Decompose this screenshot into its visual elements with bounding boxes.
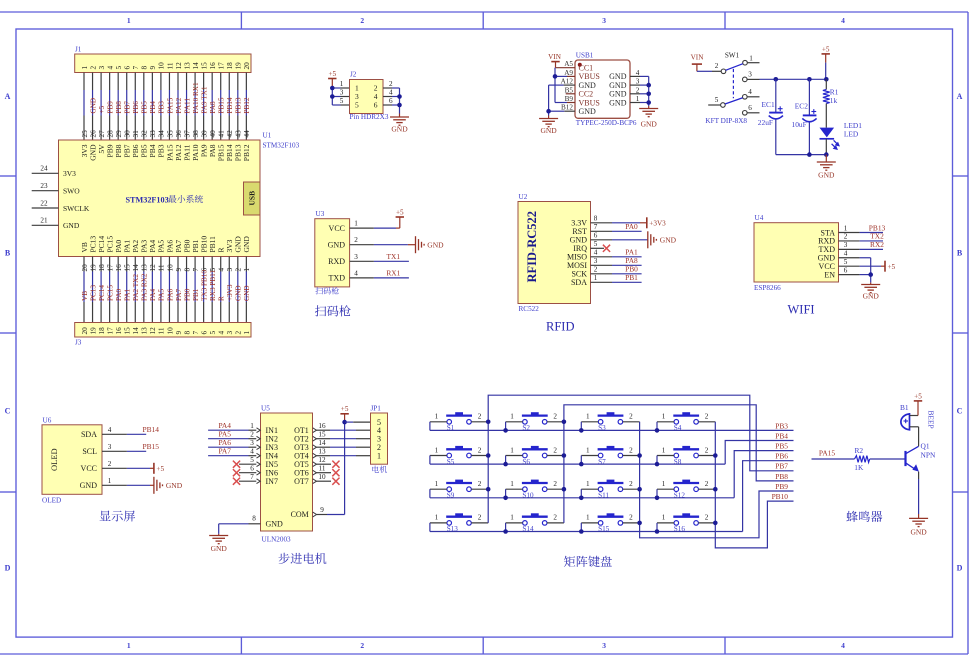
- pushbutton S3: [581, 412, 639, 432]
- wire VBUS bus A9-B9: [554, 68, 556, 103]
- svg-text:B: B: [957, 249, 963, 258]
- svg-text:GND: GND: [540, 126, 557, 135]
- svg-text:7: 7: [594, 223, 598, 231]
- svg-text:PA7: PA7: [175, 288, 183, 301]
- pushbutton S13: [430, 513, 488, 533]
- svg-text:R: R: [218, 296, 226, 301]
- svg-text:PB14: PB14: [142, 425, 159, 434]
- svg-text:10: 10: [166, 264, 174, 272]
- svg-text:LED: LED: [844, 130, 859, 139]
- svg-text:9: 9: [149, 66, 157, 70]
- svg-text:35: 35: [166, 130, 174, 138]
- svg-text:7: 7: [192, 331, 200, 335]
- svg-text:PB3: PB3: [158, 101, 166, 114]
- ground symbol below U5: [218, 534, 220, 536]
- wire U2 MOSI net PA8: [591, 264, 613, 266]
- power +5 port at J2: [328, 78, 336, 80]
- svg-text:PA9 TX1: PA9 TX1: [200, 86, 208, 113]
- svg-text:1: 1: [586, 446, 590, 454]
- svg-text:8: 8: [594, 215, 598, 223]
- junction dot VBUS bus: [553, 74, 558, 79]
- pushbutton S2: [506, 412, 564, 432]
- svg-text:11: 11: [158, 264, 166, 271]
- svg-text:J3: J3: [75, 339, 82, 347]
- svg-text:PB3: PB3: [775, 421, 788, 430]
- svg-text:2: 2: [478, 413, 482, 421]
- wire U3 VCC to +5: [350, 227, 374, 229]
- RFID module U2 RC522: [518, 202, 591, 304]
- power +5 port top right: [822, 53, 830, 55]
- svg-text:2: 2: [636, 86, 640, 94]
- svg-text:2: 2: [235, 268, 243, 272]
- caption buzzer: [846, 511, 857, 522]
- svg-text:PB7: PB7: [124, 101, 132, 114]
- svg-text:PA7: PA7: [219, 446, 232, 455]
- svg-text:3: 3: [748, 71, 752, 79]
- wire +5 bus to J2 left pins: [331, 88, 333, 105]
- svg-text:GND: GND: [391, 125, 408, 134]
- svg-text:GND: GND: [818, 171, 835, 180]
- wire bottom rail of filter caps: [776, 154, 827, 156]
- svg-text:2: 2: [235, 331, 243, 335]
- svg-text:PB13: PB13: [235, 97, 243, 113]
- svg-text:PB6: PB6: [132, 101, 140, 114]
- wires U5 outputs OT1-OT4 to JP1: [317, 429, 331, 431]
- svg-text:13: 13: [183, 62, 191, 70]
- svg-text:A: A: [5, 92, 11, 101]
- svg-text:A12: A12: [561, 78, 574, 86]
- svg-text:RXD: RXD: [328, 257, 345, 266]
- svg-text:25: 25: [81, 130, 89, 138]
- svg-text:4: 4: [354, 269, 358, 277]
- svg-text:1: 1: [354, 220, 358, 228]
- svg-text:10: 10: [158, 62, 166, 70]
- svg-text:GND: GND: [63, 221, 80, 230]
- junction dots on J2 right bus: [397, 94, 402, 99]
- svg-text:B5: B5: [565, 86, 574, 94]
- svg-text:+5: +5: [328, 70, 336, 78]
- svg-text:A5: A5: [564, 60, 573, 68]
- svg-text:44: 44: [243, 130, 251, 138]
- ground symbol below J2: [399, 114, 401, 118]
- svg-text:2: 2: [705, 413, 709, 421]
- svg-text:RC522: RC522: [519, 305, 540, 313]
- svg-text:GND: GND: [235, 285, 243, 301]
- svg-text:KFT DIP-8X8: KFT DIP-8X8: [705, 117, 747, 125]
- pushbutton S1: [430, 412, 488, 432]
- svg-text:NPN: NPN: [921, 450, 936, 459]
- U1 USB sub-connector box: [244, 182, 261, 215]
- SW1 pin stubs: [747, 62, 759, 64]
- svg-text:TXD: TXD: [329, 274, 346, 283]
- svg-text:6: 6: [200, 331, 208, 335]
- svg-text:USB1: USB1: [576, 52, 594, 60]
- svg-text:5: 5: [355, 101, 359, 110]
- wire U4 TXD net RX2: [839, 248, 860, 250]
- pushbutton S16: [657, 513, 715, 533]
- svg-text:21: 21: [40, 217, 48, 225]
- wire U3 GND to ground: [350, 244, 374, 246]
- svg-text:VIN: VIN: [548, 53, 562, 61]
- pin stub CC2 B5: [566, 93, 575, 95]
- svg-text:PB12: PB12: [242, 144, 251, 161]
- svg-text:PA15: PA15: [819, 449, 835, 458]
- svg-text:PB1: PB1: [625, 273, 638, 282]
- svg-text:5: 5: [594, 240, 598, 248]
- svg-text:20: 20: [81, 327, 89, 335]
- svg-text:6: 6: [250, 464, 254, 472]
- svg-text:5: 5: [250, 456, 254, 464]
- pushbutton S10: [506, 480, 564, 500]
- svg-text:U6: U6: [43, 416, 52, 424]
- wire U6 SDA net PB14: [102, 433, 127, 435]
- junction dots on +5 rail: [774, 77, 779, 82]
- LED1: [820, 128, 835, 138]
- svg-text:PB6: PB6: [775, 452, 788, 461]
- wire U2 GND to ground: [591, 239, 613, 241]
- svg-text:3: 3: [594, 257, 598, 265]
- svg-text:PB15: PB15: [218, 97, 226, 113]
- svg-text:RFID: RFID: [546, 320, 574, 334]
- svg-text:16: 16: [115, 264, 123, 272]
- pushbutton S7: [581, 446, 639, 466]
- svg-text:6: 6: [389, 97, 393, 105]
- svg-text:RX3 PB11: RX3 PB11: [209, 270, 217, 301]
- wire U1 bottom pins down to J3: [84, 257, 246, 323]
- caption barcode scanner: [315, 305, 326, 316]
- wire USB1 GND pins A12 B12 to ground: [564, 84, 575, 86]
- svg-text:15: 15: [200, 62, 208, 70]
- svg-text:GND: GND: [863, 292, 880, 301]
- U3 comment text scanner: [315, 287, 322, 294]
- wire JP1 pin5 to +5 rail: [345, 421, 354, 423]
- svg-text:1: 1: [108, 477, 112, 485]
- capacitor EC2 10uF: [808, 79, 810, 115]
- connector J2 Pin HDR2X3: [350, 80, 384, 114]
- power +5 port above JP1: [344, 414, 346, 422]
- svg-text:20: 20: [81, 264, 89, 272]
- svg-text:1: 1: [586, 480, 590, 488]
- svg-text:VBUS: VBUS: [579, 98, 600, 107]
- svg-text:OT7: OT7: [294, 477, 309, 486]
- svg-text:9: 9: [320, 506, 324, 514]
- svg-text:+5: +5: [341, 405, 349, 413]
- svg-text:1: 1: [243, 268, 251, 272]
- svg-text:17: 17: [106, 264, 114, 272]
- pushbutton S9: [430, 480, 488, 500]
- svg-text:PB8: PB8: [115, 101, 123, 114]
- ground symbol below Q1: [918, 514, 920, 518]
- svg-text:23: 23: [40, 182, 48, 190]
- svg-text:34: 34: [158, 130, 166, 138]
- svg-text:1: 1: [340, 80, 344, 88]
- svg-text:16: 16: [318, 422, 326, 430]
- svg-text:BEEP: BEEP: [927, 411, 936, 429]
- svg-text:IN7: IN7: [266, 477, 278, 486]
- SW1 actuator levers: [726, 64, 743, 71]
- svg-text:1: 1: [510, 413, 514, 421]
- svg-text:EC1: EC1: [762, 100, 775, 109]
- wire keypad column 3 net to PB9: [640, 422, 794, 538]
- pushbutton S12: [657, 480, 715, 500]
- svg-text:PA5: PA5: [158, 288, 166, 301]
- svg-text:6: 6: [594, 232, 598, 240]
- svg-text:22: 22: [40, 199, 48, 207]
- svg-text:3: 3: [602, 16, 606, 25]
- svg-text:13: 13: [318, 447, 326, 455]
- wire row3 rail riser to PB5 stub: [734, 451, 793, 498]
- svg-text:37: 37: [183, 130, 191, 138]
- svg-text:STM32F103: STM32F103: [126, 195, 169, 204]
- svg-text:1: 1: [662, 514, 666, 522]
- svg-text:GND: GND: [609, 72, 627, 81]
- svg-text:B12: B12: [561, 104, 573, 112]
- caption display: [100, 511, 111, 521]
- svg-text:PA0: PA0: [625, 222, 638, 231]
- transistor Q1 NPN: [904, 451, 906, 466]
- power +3V3 port at U2: [640, 222, 647, 224]
- svg-text:2: 2: [360, 16, 364, 25]
- svg-text:PA15: PA15: [166, 97, 174, 113]
- svg-text:J1: J1: [75, 46, 82, 54]
- svg-text:10uF: 10uF: [792, 120, 807, 129]
- svg-text:4: 4: [250, 447, 254, 455]
- wire USB1 right shield pins to ground: [630, 75, 640, 77]
- svg-text:PC14: PC14: [98, 285, 106, 301]
- power +5 port above buzzer: [917, 401, 919, 416]
- svg-text:J2: J2: [350, 71, 357, 79]
- wire U4 STA net PB13: [839, 232, 860, 234]
- power +5 port at U4: [881, 265, 885, 267]
- svg-text:4: 4: [844, 250, 848, 258]
- svg-text:14: 14: [132, 264, 140, 272]
- svg-text:2: 2: [715, 62, 719, 70]
- svg-text:9: 9: [175, 268, 183, 272]
- junction dots bottom rail: [807, 152, 812, 157]
- svg-text:31: 31: [132, 130, 140, 138]
- svg-text:U3: U3: [316, 210, 325, 218]
- wire keypad row rails pin1 nets: [430, 422, 794, 532]
- svg-text:5: 5: [844, 258, 848, 266]
- svg-text:PB15: PB15: [142, 442, 159, 451]
- svg-text:4: 4: [389, 89, 393, 97]
- ground symbol right of U3: [416, 236, 425, 253]
- svg-text:PA0: PA0: [115, 288, 123, 301]
- svg-text:22uF: 22uF: [758, 118, 773, 127]
- svg-text:B9: B9: [565, 95, 574, 103]
- power +5 port at U3: [396, 227, 400, 229]
- svg-text:42: 42: [226, 130, 234, 138]
- wires U5 inputs nets PA4-PA7: [208, 429, 248, 431]
- svg-text:SWO: SWO: [63, 187, 80, 196]
- svg-text:29: 29: [115, 130, 123, 138]
- wire U4 GND and EN to ground: [839, 257, 860, 259]
- svg-text:17: 17: [106, 327, 114, 335]
- pushbutton S8: [657, 446, 715, 466]
- svg-text:7: 7: [250, 473, 254, 481]
- svg-text:6: 6: [374, 101, 378, 110]
- svg-text:GND: GND: [579, 107, 597, 116]
- svg-text:+5: +5: [396, 208, 404, 216]
- svg-text:PB9: PB9: [106, 101, 114, 114]
- svg-text:11: 11: [158, 327, 166, 334]
- caption stepper motor: [279, 553, 290, 564]
- svg-text:27: 27: [98, 130, 106, 138]
- wire +5 feed rail: [825, 63, 827, 80]
- svg-text:PB0: PB0: [183, 288, 191, 301]
- svg-text:RFID-RC522: RFID-RC522: [525, 211, 539, 283]
- svg-text:9: 9: [175, 331, 183, 335]
- svg-text:14: 14: [318, 439, 326, 447]
- svg-text:GND: GND: [910, 528, 927, 537]
- svg-text:2: 2: [360, 641, 364, 650]
- U5 IN5-IN7 no-connects: [239, 463, 256, 465]
- svg-text:VCC: VCC: [329, 224, 345, 233]
- svg-text:2: 2: [108, 460, 112, 468]
- svg-text:14: 14: [132, 327, 140, 335]
- power +5 port at U6: [150, 467, 154, 469]
- U1 left pins 24-21 SWD port: [32, 172, 59, 174]
- svg-text:6: 6: [748, 104, 752, 112]
- wire U2 MISO net PA1: [591, 256, 613, 258]
- svg-text:GND: GND: [641, 120, 658, 129]
- connector J1: [75, 54, 251, 73]
- svg-text:3: 3: [844, 241, 848, 249]
- svg-text:1k: 1k: [830, 96, 838, 105]
- svg-text:1: 1: [510, 514, 514, 522]
- connector JP1 motor: [371, 413, 388, 464]
- svg-text:A: A: [957, 92, 963, 101]
- svg-text:3: 3: [108, 443, 112, 451]
- svg-text:D: D: [957, 564, 963, 573]
- svg-text:PB10: PB10: [772, 492, 789, 501]
- svg-text:28: 28: [106, 130, 114, 138]
- svg-text:4: 4: [841, 641, 845, 650]
- svg-text:GND: GND: [609, 90, 627, 99]
- svg-text:1: 1: [127, 641, 131, 650]
- svg-text:PB8: PB8: [775, 472, 788, 481]
- junction dots on row rails: [503, 428, 508, 433]
- svg-text:1: 1: [250, 422, 254, 430]
- svg-text:15: 15: [124, 264, 132, 272]
- svg-text:D: D: [5, 564, 11, 573]
- connector USB1 TYPEC-250D-BCP6: [575, 60, 630, 118]
- wire keypad column 1 net to PB7: [488, 395, 793, 523]
- U5 OT5-OT7 no-connects: [317, 463, 332, 465]
- barcode scanner module U3: [315, 219, 350, 287]
- wire U5 GND pin to ground: [249, 523, 261, 525]
- svg-text:GND: GND: [243, 285, 251, 301]
- svg-text:12: 12: [149, 264, 157, 272]
- svg-text:1: 1: [435, 514, 439, 522]
- svg-text:14: 14: [192, 62, 200, 70]
- svg-text:A9: A9: [564, 69, 573, 77]
- svg-text:ESP8266: ESP8266: [754, 284, 781, 292]
- pushbutton S11: [581, 480, 639, 500]
- svg-text:3: 3: [98, 66, 106, 70]
- svg-text:12: 12: [318, 456, 326, 464]
- svg-text:GND: GND: [609, 98, 627, 107]
- svg-text:GND: GND: [166, 481, 183, 490]
- svg-text:SDA: SDA: [81, 430, 97, 439]
- svg-text:OLED: OLED: [42, 496, 61, 504]
- svg-text:3: 3: [354, 253, 358, 261]
- svg-text:1: 1: [662, 413, 666, 421]
- svg-text:2: 2: [553, 514, 557, 522]
- svg-text:18: 18: [98, 327, 106, 335]
- svg-text:GND: GND: [427, 241, 444, 250]
- svg-text:GND: GND: [328, 241, 346, 250]
- wire U3 TXD net RX1: [350, 277, 374, 279]
- svg-text:19: 19: [89, 264, 97, 272]
- pushbutton S5: [430, 446, 488, 466]
- svg-text:2: 2: [389, 80, 393, 88]
- svg-text:3: 3: [226, 331, 234, 335]
- svg-text:PB14: PB14: [226, 97, 234, 113]
- svg-text:GND: GND: [266, 520, 284, 529]
- svg-text:B1: B1: [900, 403, 909, 412]
- svg-text:TX1: TX1: [387, 252, 401, 261]
- capacitor EC1 22uF: [775, 79, 777, 112]
- svg-text:PA10 RX1: PA10 RX1: [192, 82, 200, 113]
- wire U3 RXD net TX1: [350, 260, 374, 262]
- svg-text:C: C: [5, 407, 11, 416]
- svg-text:4: 4: [636, 69, 640, 77]
- svg-text:Q1: Q1: [921, 441, 930, 450]
- wire U6 VCC to +5: [102, 467, 127, 469]
- svg-text:PB1: PB1: [192, 288, 200, 301]
- wire keypad column 2 net to PB8: [564, 405, 794, 523]
- svg-text:Pin HDR2X3: Pin HDR2X3: [350, 113, 389, 121]
- wire Q1 emitter to ground: [918, 472, 920, 479]
- svg-text:U5: U5: [261, 405, 270, 413]
- svg-text:2: 2: [553, 413, 557, 421]
- svg-text:2: 2: [844, 233, 848, 241]
- svg-text:8: 8: [141, 66, 149, 70]
- svg-text:17: 17: [218, 62, 226, 70]
- svg-text:1: 1: [435, 446, 439, 454]
- svg-text:+3V3: +3V3: [649, 219, 666, 227]
- svg-text:30: 30: [124, 130, 132, 138]
- svg-text:1: 1: [749, 55, 753, 63]
- svg-text:GND: GND: [579, 81, 597, 90]
- wire J1 pins down to U1 top pins: [84, 73, 246, 141]
- svg-text:1: 1: [377, 452, 381, 461]
- svg-text:1: 1: [662, 446, 666, 454]
- svg-text:B: B: [5, 249, 11, 258]
- svg-text:+3V3: +3V3: [226, 284, 234, 301]
- svg-text:SDA: SDA: [571, 278, 587, 287]
- svg-text:19: 19: [235, 62, 243, 70]
- caption matrix keypad: [564, 556, 575, 567]
- svg-text:PA8: PA8: [209, 101, 217, 114]
- svg-text:2: 2: [705, 446, 709, 454]
- svg-text:C: C: [957, 407, 963, 416]
- svg-text:JP1: JP1: [371, 405, 382, 413]
- JP1 comment motor: [372, 466, 379, 473]
- svg-text:6: 6: [124, 66, 132, 70]
- svg-text:1: 1: [243, 331, 251, 335]
- wire VIN to SW1 pin 2: [697, 70, 712, 72]
- svg-text:GND: GND: [609, 81, 627, 90]
- svg-text:RX2: RX2: [870, 240, 884, 249]
- svg-text:39: 39: [200, 130, 208, 138]
- svg-text:2: 2: [629, 480, 633, 488]
- svg-text:4: 4: [594, 249, 598, 257]
- svg-text:U1: U1: [263, 132, 272, 140]
- svg-text:6: 6: [844, 266, 848, 274]
- svg-text:2: 2: [553, 480, 557, 488]
